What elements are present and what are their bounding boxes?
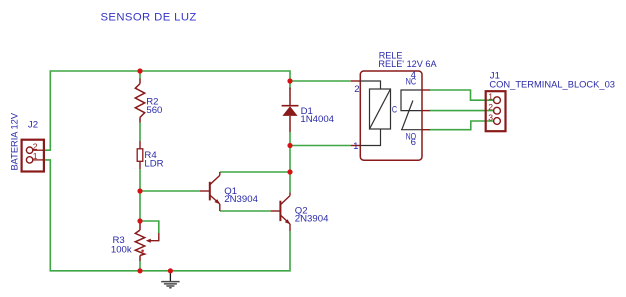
- wire relay NO to J1 pin 3: [430, 121, 494, 130]
- transistor Q1 2N3904: [200, 190, 210, 192]
- resistor R4 LDR body: [137, 149, 143, 162]
- junction node ground tap: [168, 268, 173, 273]
- relay coil leads: [360, 81, 380, 146]
- wire R3 bottom to rail: [139, 261, 141, 271]
- J2 pin 2 stub: [33, 149, 45, 151]
- svg-text:1: 1: [488, 91, 493, 101]
- svg-text:1: 1: [353, 141, 358, 152]
- relay pin 2 stub: [351, 80, 361, 82]
- relay contact lines: [401, 90, 421, 130]
- wire D1 anode node to relay coil pin 1: [290, 145, 351, 147]
- svg-text:C: C: [392, 104, 397, 115]
- wire Q1 base from node: [140, 190, 200, 192]
- svg-text:1N4004: 1N4004: [300, 114, 334, 125]
- J1 pin 3 circle: [494, 118, 501, 125]
- wire relay NC to J1 pin 1: [430, 90, 494, 100]
- junction node D1 anode: [287, 143, 292, 148]
- svg-text:100k: 100k: [111, 245, 132, 256]
- junction node D1 cathode: [287, 78, 292, 83]
- wire relay C to J1 pin 2: [430, 110, 494, 112]
- transistor Q2 2N3904: [271, 210, 281, 212]
- wire bottom rail from J2 pin1 down, across, up to Q2 emitter: [45, 160, 290, 271]
- wire Q1 collector to D1 column: [220, 171, 290, 173]
- connector J2 body: [22, 140, 44, 172]
- relay pin 4 NC stub: [421, 89, 430, 91]
- svg-text:2: 2: [488, 102, 493, 112]
- resistor R2 560: [135, 79, 144, 123]
- wire D1 anode column down to Q2 collector: [289, 132, 291, 193]
- J2 pin 1 stub: [33, 159, 45, 161]
- wire R2 top lead from rail: [139, 71, 141, 79]
- resistor R4 LDR leads: [139, 141, 141, 169]
- J2 pin 2 circle: [26, 147, 32, 153]
- wire R3 wiper loop: [140, 221, 159, 233]
- junction node R3 top: [137, 218, 142, 223]
- svg-text:SENSOR DE LUZ: SENSOR DE LUZ: [101, 11, 197, 23]
- svg-text:3: 3: [488, 112, 493, 122]
- svg-text:NC: NC: [406, 76, 417, 87]
- junction node Q1 collector: [287, 169, 292, 174]
- svg-text:6: 6: [411, 137, 416, 148]
- R3 wiper pin dot: [141, 250, 144, 253]
- relay K1 body: [360, 71, 422, 160]
- ground: [169, 271, 171, 282]
- junction node R3 bottom: [137, 268, 142, 273]
- relay pin 1 stub: [351, 145, 361, 147]
- svg-text:RELE' 12V 6A: RELE' 12V 6A: [378, 59, 437, 70]
- svg-text:2N3904: 2N3904: [295, 214, 329, 225]
- diode D1 1N4004: [289, 88, 291, 133]
- connector J1 body: [486, 91, 506, 131]
- wire R2 bottom to R4 top: [139, 123, 141, 142]
- potentiometer R3 wiper arm: [150, 233, 159, 241]
- svg-text:LDR: LDR: [144, 159, 163, 170]
- svg-text:1: 1: [33, 151, 38, 161]
- svg-text:560: 560: [146, 105, 162, 116]
- wire D1 cathode node to relay coil pin 2: [290, 80, 351, 82]
- J1 pin 1 circle: [494, 97, 501, 104]
- J1 pin 2 circle: [494, 107, 501, 114]
- relay coil: [370, 89, 391, 129]
- svg-text:2: 2: [354, 84, 359, 95]
- relay pin 6 NO stub: [421, 129, 430, 131]
- wire Q1 emitter to Q2 base: [220, 210, 271, 212]
- svg-text:2N3904: 2N3904: [224, 194, 258, 205]
- svg-text:J2: J2: [28, 120, 38, 131]
- J2 pin 1 circle: [26, 157, 32, 163]
- relay contact blade: [402, 101, 413, 130]
- wire top rail from J2 pin2 up and across to D1 column: [45, 71, 290, 150]
- potentiometer R3 100k: [135, 221, 144, 261]
- junction node Q1 base: [137, 188, 142, 193]
- relay pin C stub: [421, 110, 430, 112]
- svg-text:BATERIA 12V: BATERIA 12V: [10, 112, 21, 170]
- junction node R2 top: [137, 68, 142, 73]
- wire R4 bottom through node to R3 top: [139, 169, 141, 221]
- svg-text:CON_TERMINAL_BLOCK_03: CON_TERMINAL_BLOCK_03: [489, 80, 615, 91]
